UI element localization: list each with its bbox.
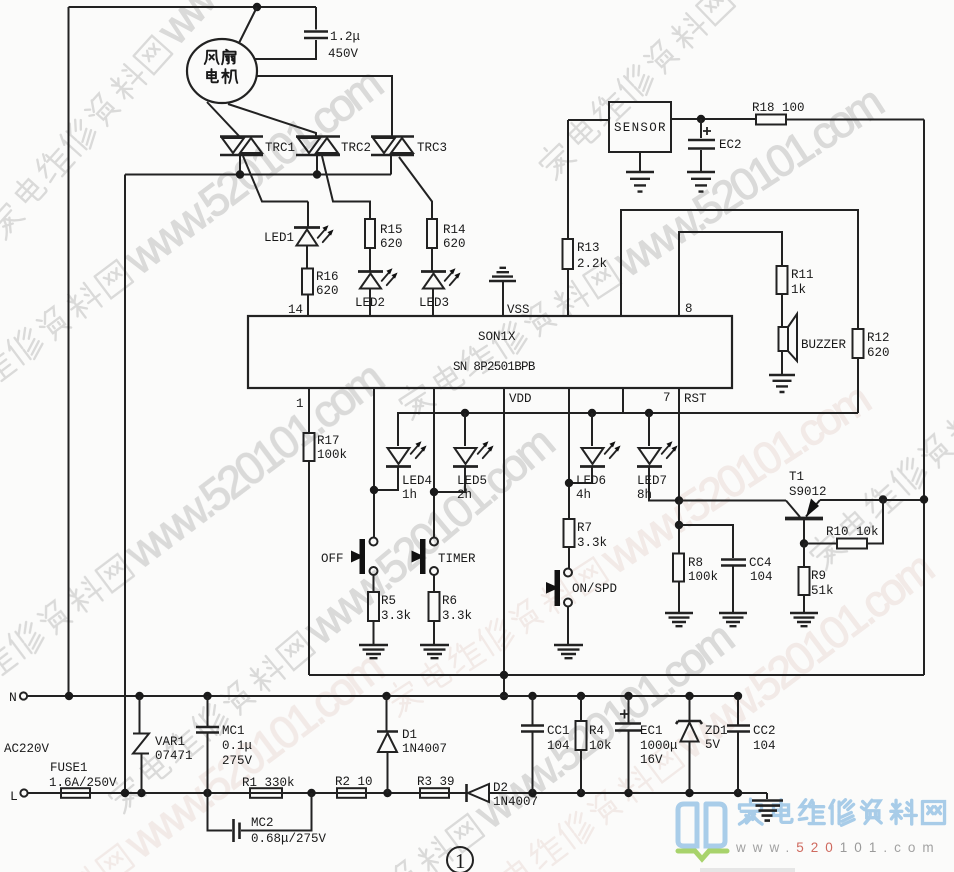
capacitor EC2 bbox=[687, 119, 715, 192]
svg-text:1h: 1h bbox=[402, 488, 417, 502]
svg-text:N: N bbox=[9, 690, 17, 705]
wire pin TIMER chain bbox=[433, 388, 435, 538]
terminal L bbox=[20, 789, 27, 796]
LED6 4h bbox=[569, 413, 621, 483]
svg-text:4h: 4h bbox=[576, 488, 591, 502]
svg-text:2.2k: 2.2k bbox=[577, 257, 607, 271]
svg-text:VAR1: VAR1 bbox=[155, 735, 185, 749]
node VAR1 bottom bbox=[137, 789, 145, 797]
triac TRC1 bbox=[220, 137, 308, 202]
svg-text:L: L bbox=[10, 789, 18, 804]
svg-text:CC2: CC2 bbox=[753, 724, 776, 738]
svg-text:R12: R12 bbox=[867, 331, 890, 345]
svg-text:R7: R7 bbox=[577, 521, 592, 535]
svg-text:620: 620 bbox=[443, 237, 466, 251]
wire left long vertical bbox=[68, 7, 70, 696]
ground below R6 bbox=[420, 645, 449, 658]
triac TRC2 bbox=[296, 137, 370, 220]
node D1 bottom bbox=[383, 789, 391, 797]
node D1 top bbox=[382, 692, 390, 700]
svg-text:LED7: LED7 bbox=[637, 474, 667, 488]
node R10 top bbox=[879, 495, 887, 503]
ground below R5 bbox=[359, 645, 388, 658]
varistor VAR1 07471 bbox=[133, 696, 149, 793]
node pin7 junction bbox=[675, 496, 683, 504]
svg-text:620: 620 bbox=[867, 346, 890, 360]
svg-text:TRC2: TRC2 bbox=[341, 141, 371, 155]
svg-text:10k: 10k bbox=[589, 739, 612, 753]
svg-text:1.2μ: 1.2μ bbox=[330, 30, 361, 44]
svg-text:51k: 51k bbox=[811, 584, 834, 598]
svg-text:R16: R16 bbox=[316, 270, 339, 284]
buzzer bbox=[769, 314, 797, 392]
wire R8 branch bbox=[678, 501, 680, 554]
node EC2 top bbox=[697, 115, 705, 123]
svg-text:S9012: S9012 bbox=[789, 485, 827, 499]
svg-text:R15: R15 bbox=[380, 223, 403, 237]
ground earth at rail end bbox=[752, 793, 783, 821]
LED7 8h bbox=[637, 413, 679, 501]
svg-text:LED1: LED1 bbox=[264, 231, 294, 245]
wire motor right to TRC3 bbox=[257, 76, 392, 136]
diode D1 1N4007 bbox=[377, 696, 398, 793]
node MC1 bottom bbox=[203, 789, 211, 797]
capacitor EC1 1000u 16V bbox=[615, 696, 641, 793]
svg-text:R8: R8 bbox=[688, 556, 703, 570]
wire motor to TRC1 bbox=[207, 102, 239, 136]
svg-text:D1: D1 bbox=[402, 728, 417, 742]
wire VDD down to rails bbox=[503, 388, 505, 696]
resistor R13 2.2k bbox=[567, 120, 569, 239]
buzzer loop outer bbox=[621, 210, 858, 329]
resistor R18 100 bbox=[756, 115, 786, 125]
ground below R8 bbox=[665, 613, 693, 626]
svg-text:LED2: LED2 bbox=[355, 296, 385, 310]
svg-text:07471: 07471 bbox=[155, 749, 193, 763]
ground above VSS bbox=[489, 268, 516, 316]
switch ON/SPD bbox=[546, 569, 572, 645]
node LED6 anode bbox=[588, 409, 596, 417]
svg-text:8: 8 bbox=[685, 302, 693, 316]
svg-text:16V: 16V bbox=[640, 753, 663, 767]
label motor 风扇电机 bbox=[205, 50, 238, 84]
svg-text:TRC1: TRC1 bbox=[265, 141, 295, 155]
node MC1 top bbox=[203, 692, 211, 700]
svg-text:620: 620 bbox=[316, 284, 339, 298]
svg-text:275V: 275V bbox=[222, 754, 253, 768]
svg-text:100k: 100k bbox=[317, 448, 347, 462]
switch TIMER bbox=[412, 538, 439, 593]
resistor R7 3.3k bbox=[564, 519, 575, 547]
capacitor CC1 104 bbox=[521, 696, 544, 793]
node VDD N rail bbox=[500, 692, 508, 700]
node TRC1 bottom bbox=[236, 170, 244, 178]
svg-text:1N4007: 1N4007 bbox=[493, 795, 538, 809]
wire pin at x623 bbox=[622, 388, 624, 413]
triac TRC3 bbox=[371, 137, 432, 220]
svg-text:R5: R5 bbox=[381, 594, 396, 608]
node left vert on N bbox=[65, 692, 73, 700]
node TRC2 bottom bbox=[313, 170, 321, 178]
zener ZD1 5V bbox=[676, 696, 702, 793]
terminal N bbox=[20, 692, 27, 699]
svg-text:0.1μ: 0.1μ bbox=[222, 739, 253, 753]
svg-text:620: 620 bbox=[380, 237, 403, 251]
node CC1 bottom bbox=[528, 789, 536, 797]
node CC2 top bbox=[734, 692, 742, 700]
wire triac bottom rail bbox=[125, 174, 391, 176]
svg-text:1: 1 bbox=[296, 397, 304, 411]
resistor R11 1k bbox=[777, 266, 788, 294]
resistor R16 620 bbox=[302, 269, 313, 295]
node ZD1 top bbox=[685, 692, 693, 700]
wire left vertical to L rail bbox=[124, 175, 126, 794]
LED4 1h bbox=[374, 441, 427, 490]
svg-text:ON/SPD: ON/SPD bbox=[572, 582, 617, 596]
svg-text:3.3k: 3.3k bbox=[381, 609, 411, 623]
resistor R12 620 bbox=[853, 329, 864, 358]
ground below ON/SPD bbox=[554, 645, 583, 658]
wire transistor right bbox=[820, 499, 924, 501]
SENSOR box bbox=[609, 102, 671, 152]
node LED5 cathode bbox=[430, 488, 438, 496]
motor M fan bbox=[187, 39, 257, 103]
svg-text:1000μ: 1000μ bbox=[640, 739, 678, 753]
wire box bottom rail bbox=[309, 674, 924, 676]
node LED4 cathode bbox=[370, 486, 378, 494]
fuse FUSE1 bbox=[61, 788, 90, 798]
svg-text:CC1: CC1 bbox=[547, 724, 570, 738]
svg-text:TIMER: TIMER bbox=[438, 552, 476, 566]
svg-text:www.520101.com: www.520101.com bbox=[735, 840, 941, 855]
svg-text:8h: 8h bbox=[637, 488, 652, 502]
resistor R9 51k bbox=[803, 544, 805, 568]
capacitor CC4 104 bbox=[679, 525, 747, 626]
svg-text:SN 8P2501BPB: SN 8P2501BPB bbox=[453, 360, 536, 374]
svg-text:1k: 1k bbox=[791, 283, 806, 297]
svg-text:AC220V: AC220V bbox=[4, 742, 50, 756]
svg-text:VDD: VDD bbox=[509, 392, 532, 406]
node R4 top bbox=[577, 692, 585, 700]
svg-text:EC2: EC2 bbox=[719, 138, 742, 152]
svg-text:LED3: LED3 bbox=[419, 296, 449, 310]
svg-text:LED5: LED5 bbox=[457, 474, 487, 488]
svg-text:104: 104 bbox=[753, 739, 776, 753]
node R1 right bbox=[307, 789, 315, 797]
transistor T1 S9012 bbox=[785, 499, 823, 544]
wire pin OFF chain bbox=[373, 388, 375, 538]
svg-text:VSS: VSS bbox=[507, 303, 530, 317]
node ZD1 bottom bbox=[685, 789, 693, 797]
wire pin1 down through R17 to box bottom rail bbox=[308, 388, 310, 433]
capacitor MC1 0.1u 275V bbox=[196, 696, 219, 793]
wire R7 chain bbox=[568, 388, 570, 519]
svg-text:R10 10k: R10 10k bbox=[826, 525, 879, 539]
svg-text:ZD1: ZD1 bbox=[705, 724, 728, 738]
resistor R3 39 bbox=[420, 788, 449, 798]
svg-text:R2 10: R2 10 bbox=[335, 775, 373, 789]
wire L rail bbox=[28, 792, 467, 794]
svg-text:R18 100: R18 100 bbox=[752, 101, 805, 115]
wire motor to TRC2 bbox=[228, 104, 316, 136]
diode D2 1N4007 bbox=[467, 784, 768, 802]
node LED6 cathode bbox=[565, 479, 573, 487]
svg-text:RST: RST bbox=[684, 392, 707, 406]
resistor R8 100k bbox=[673, 554, 684, 582]
node R4 bottom bbox=[577, 789, 585, 797]
svg-text:SENSOR: SENSOR bbox=[614, 121, 667, 135]
svg-text:104: 104 bbox=[547, 739, 570, 753]
svg-text:R14: R14 bbox=[443, 223, 466, 237]
svg-text:R3 39: R3 39 bbox=[417, 775, 455, 789]
svg-text:1N4007: 1N4007 bbox=[402, 742, 447, 756]
resistor R6 3.3k bbox=[429, 592, 440, 621]
svg-text:T1: T1 bbox=[789, 470, 804, 484]
svg-text:14: 14 bbox=[288, 303, 303, 317]
node LED7 anode bbox=[645, 409, 653, 417]
LED1 bbox=[294, 202, 334, 269]
figure number 1 circled bbox=[447, 847, 473, 872]
svg-text:R11: R11 bbox=[791, 268, 814, 282]
resistor R4 10k bbox=[576, 696, 587, 793]
node collector bbox=[800, 539, 808, 547]
svg-text:LED4: LED4 bbox=[402, 474, 432, 488]
node EC1 bottom bbox=[624, 789, 632, 797]
svg-text:R13: R13 bbox=[577, 241, 600, 255]
resistor R10 10k bbox=[804, 543, 837, 545]
node VDD box rail bbox=[500, 671, 508, 679]
capacitor MC2 0.68u/275V bbox=[208, 793, 312, 842]
node EC1 top bbox=[624, 692, 632, 700]
logo bbox=[678, 799, 945, 872]
svg-text:SON1X: SON1X bbox=[478, 330, 516, 344]
svg-text:1.6A/250V: 1.6A/250V bbox=[49, 776, 117, 790]
resistor R14 620 bbox=[427, 219, 437, 248]
resistor R1 330k bbox=[250, 788, 282, 798]
capacitor CC2 104 bbox=[727, 696, 750, 793]
node right rail bbox=[920, 495, 928, 503]
svg-text:LED6: LED6 bbox=[576, 474, 606, 488]
wire N rail bbox=[27, 695, 738, 697]
svg-text:BUZZER: BUZZER bbox=[801, 338, 847, 352]
LED3 bbox=[421, 268, 461, 316]
svg-text:3.3k: 3.3k bbox=[577, 536, 607, 550]
wire right edge vertical bbox=[923, 120, 925, 676]
svg-text:MC2: MC2 bbox=[251, 816, 274, 830]
svg-text:R4: R4 bbox=[589, 724, 604, 738]
capacitor C 1.2u 450V bbox=[315, 7, 317, 30]
svg-text:R9: R9 bbox=[811, 569, 826, 583]
svg-text:2h: 2h bbox=[457, 488, 472, 502]
svg-text:7: 7 bbox=[663, 391, 671, 405]
wire transistor left bbox=[679, 500, 786, 502]
wire pin7 RST down bbox=[678, 388, 680, 501]
svg-text:TRC3: TRC3 bbox=[417, 141, 447, 155]
svg-text:FUSE1: FUSE1 bbox=[50, 761, 88, 775]
node CC2 bottom bbox=[734, 789, 742, 797]
node triac vert on L bbox=[121, 789, 129, 797]
wire top rail bbox=[69, 6, 317, 8]
resistor R15 620 bbox=[365, 219, 375, 248]
node LED5 anode bbox=[461, 409, 469, 417]
svg-text:MC1: MC1 bbox=[222, 724, 245, 738]
resistor R17 100k bbox=[304, 433, 315, 461]
svg-text:CC4: CC4 bbox=[749, 556, 772, 570]
svg-text:104: 104 bbox=[750, 570, 773, 584]
svg-text:450V: 450V bbox=[328, 47, 359, 61]
op-amp U1 IC SON1X SN 8P2501BPB bbox=[248, 316, 732, 388]
node CC4 branch bbox=[675, 521, 683, 529]
wire motor to top node bbox=[239, 7, 257, 43]
wire LED anode feed rail bbox=[398, 413, 858, 446]
resistor R5 3.3k bbox=[368, 592, 379, 621]
svg-text:100k: 100k bbox=[688, 570, 718, 584]
node top junction bbox=[253, 3, 261, 11]
buzzer loop inner pin8 bbox=[679, 232, 782, 316]
svg-text:3.3k: 3.3k bbox=[442, 609, 472, 623]
svg-text:D2: D2 bbox=[493, 781, 508, 795]
ground below SENSOR bbox=[639, 152, 641, 171]
node CC1 top bbox=[528, 692, 536, 700]
ground below R9 bbox=[790, 613, 818, 626]
svg-text:R6: R6 bbox=[442, 594, 457, 608]
LED2 bbox=[358, 268, 398, 316]
svg-text:5V: 5V bbox=[705, 738, 721, 752]
svg-text:EC1: EC1 bbox=[640, 724, 663, 738]
node VAR1 top bbox=[135, 692, 143, 700]
svg-text:1: 1 bbox=[455, 849, 466, 872]
svg-text:OFF: OFF bbox=[321, 552, 344, 566]
svg-text:0.68μ/275V: 0.68μ/275V bbox=[251, 832, 327, 846]
switch OFF bbox=[351, 538, 378, 593]
LED5 2h bbox=[434, 413, 494, 492]
svg-text:R1 330k: R1 330k bbox=[242, 776, 295, 790]
resistor R2 10 bbox=[337, 788, 366, 798]
svg-text:R17: R17 bbox=[317, 434, 340, 448]
